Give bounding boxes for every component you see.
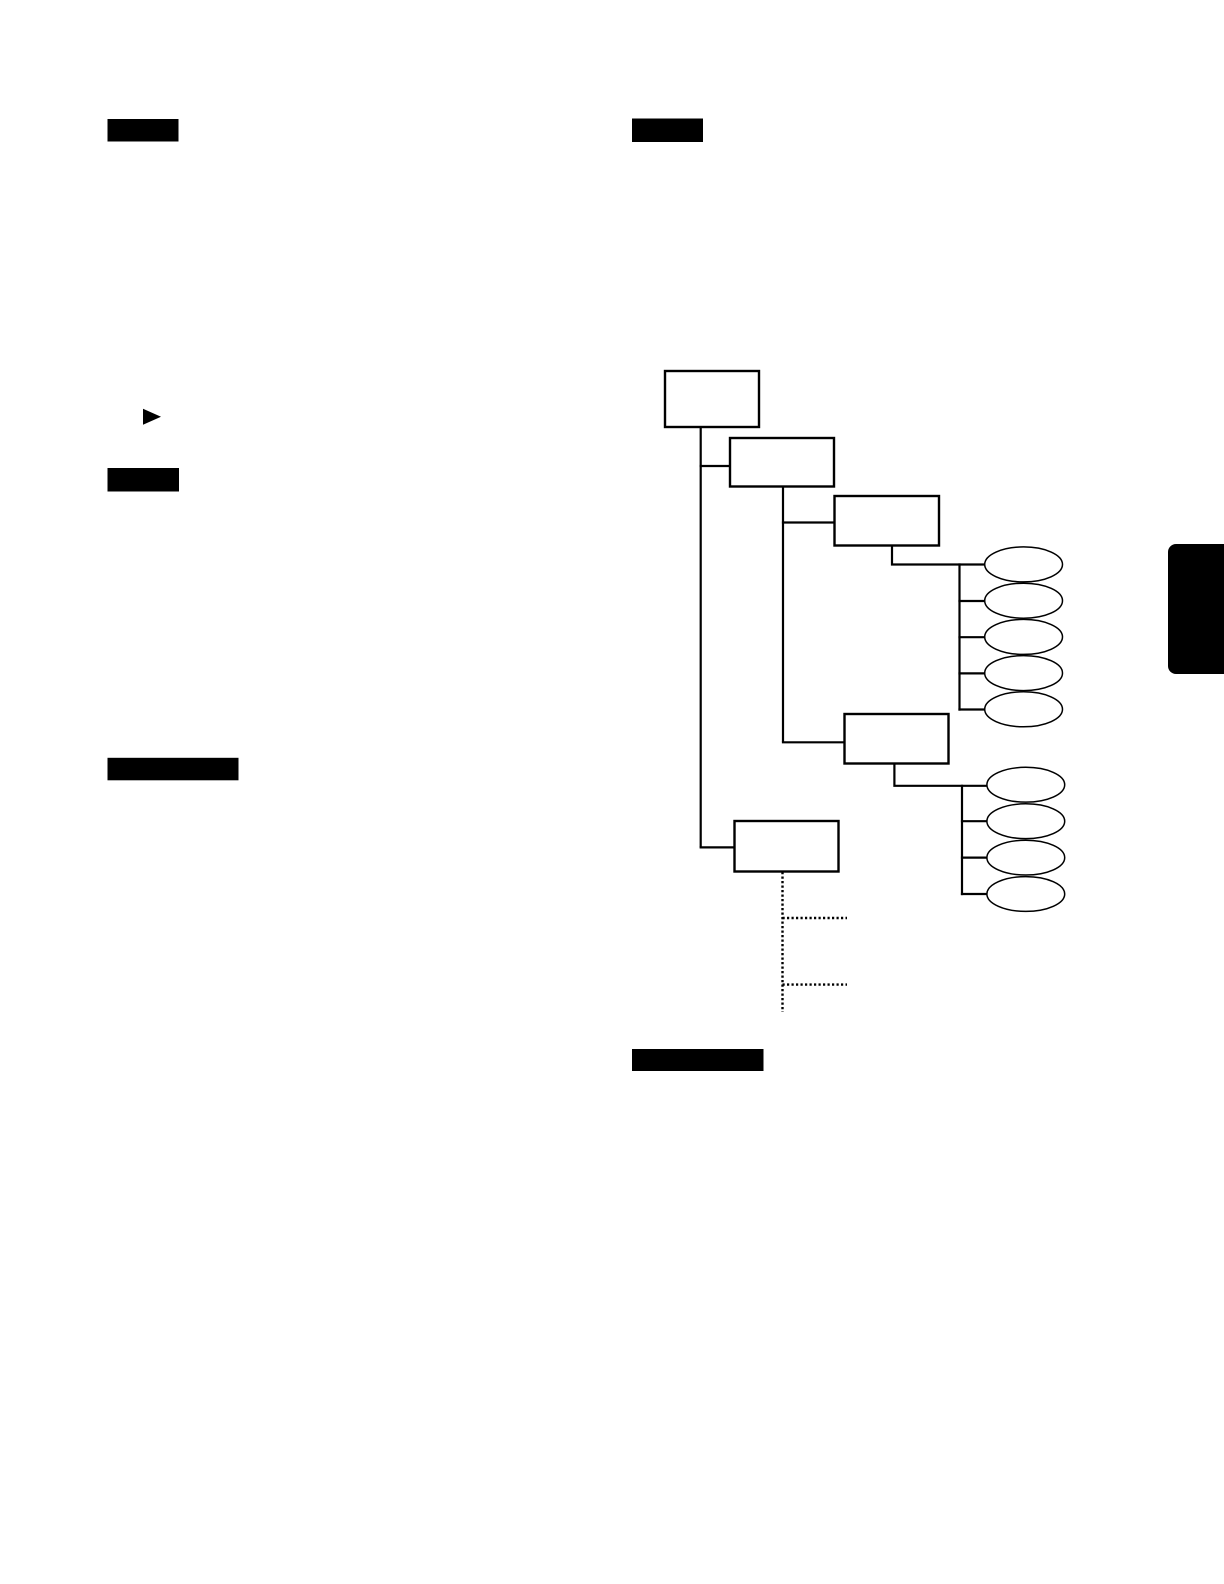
wire: stub to oval 2-2 (961, 820, 987, 822)
dotted drop line below box 5 (781, 872, 783, 1012)
triangle bullet (143, 409, 161, 425)
redacted heading bar left column second (108, 468, 180, 492)
flow box 2 (730, 438, 834, 487)
wire: stub to oval 1-5 (958, 708, 984, 710)
oval 2-3 (987, 840, 1065, 875)
wire: branch to box 2 (700, 465, 731, 467)
oval 1-1 (985, 547, 1063, 582)
wire: trunk of ellipse group 1 (958, 563, 960, 710)
wire: stub to oval 2-3 (961, 856, 987, 858)
wire: drop from box 4 to ellipse group 2 (894, 763, 986, 786)
flow box 1 (root) (665, 371, 759, 427)
wire: stub to oval 1-3 (958, 636, 984, 638)
wire: drop from box 3 to ellipse group 1 (892, 545, 985, 565)
wire: branch to box 3 (782, 521, 836, 523)
wire: trunk of ellipse group 2 (961, 785, 963, 895)
oval 1-2 (985, 583, 1063, 618)
flow box 3 (835, 496, 940, 546)
wire: stub to oval 1-2 (958, 600, 984, 602)
redacted subheading long bar right column (632, 1049, 764, 1071)
oval 2-4 (987, 877, 1065, 912)
oval 1-5 (985, 692, 1063, 727)
wire: stub to oval 2-4 (961, 893, 987, 895)
flow box 5 (735, 821, 839, 872)
wire: branch to box 5 (700, 846, 736, 848)
dotted branch 1 (783, 917, 848, 919)
oval 1-3 (985, 619, 1063, 654)
wire: main vertical trunk from box 1 (700, 427, 702, 847)
black page-edge index tab (1168, 544, 1224, 674)
flow box 4 (845, 714, 949, 764)
wire: vertical trunk from box 2 (782, 486, 784, 742)
redacted subheading long bar left column (108, 758, 239, 781)
oval 2-2 (987, 804, 1065, 839)
wire: branch to box 4 (782, 741, 846, 743)
wire: stub to oval 1-4 (958, 672, 984, 674)
oval 2-1 (987, 767, 1065, 802)
dotted branch 2 (783, 983, 848, 985)
redacted heading bar top-right column (632, 119, 703, 143)
oval 1-4 (985, 656, 1063, 691)
redacted heading bar top-left (108, 119, 179, 142)
